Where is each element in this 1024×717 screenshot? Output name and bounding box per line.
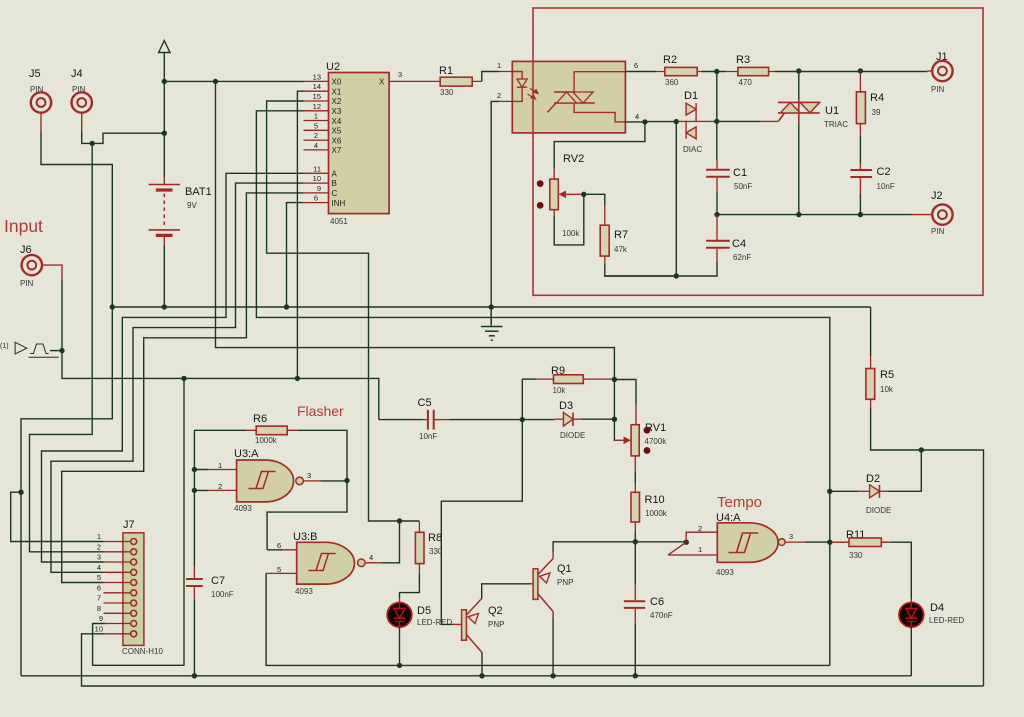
- wire J7 pin9 hook: [93, 378, 184, 665]
- wire opto pin4 to gate line: [625, 121, 678, 123]
- gate U4:A: [668, 512, 805, 577]
- svg-text:LED-RED: LED-RED: [929, 616, 964, 625]
- svg-text:15: 15: [313, 92, 321, 101]
- LED D4: [899, 599, 964, 627]
- transistor Q1 PNP: [531, 553, 573, 617]
- wire J6 down: [61, 280, 63, 351]
- wire rail to R5: [870, 307, 872, 356]
- svg-text:J5: J5: [29, 68, 41, 80]
- big red border box: [533, 8, 983, 295]
- node pin4 branch: [642, 119, 647, 124]
- resistor R10: [631, 483, 668, 532]
- svg-text:2: 2: [314, 131, 318, 140]
- wire J5 net left side down: [21, 307, 112, 676]
- svg-text:10nF: 10nF: [419, 432, 437, 441]
- svg-text:X1: X1: [332, 87, 342, 96]
- wire X0 net to R9/RV1: [216, 81, 615, 379]
- svg-text:D3: D3: [559, 400, 573, 412]
- wire gate line to U1 gate: [717, 120, 760, 122]
- svg-text:1: 1: [218, 461, 222, 470]
- svg-text:U3:A: U3:A: [234, 448, 259, 460]
- svg-text:R7: R7: [614, 229, 628, 241]
- resistor R6: [194, 413, 297, 445]
- wire U3A out: [320, 480, 347, 482]
- svg-text:9V: 9V: [187, 201, 197, 210]
- wire B net: [51, 183, 304, 572]
- wire battery to rail: [163, 245, 165, 307]
- node U1 top: [796, 68, 801, 73]
- wire J5 to rail: [41, 131, 112, 307]
- resistor R3: [726, 54, 775, 87]
- capacitor C1: [706, 160, 752, 192]
- svg-text:C5: C5: [418, 397, 432, 409]
- wire D3 to X0 node: [581, 418, 614, 420]
- svg-text:D2: D2: [866, 473, 880, 485]
- svg-text:5: 5: [97, 573, 101, 582]
- wire R4 to C2: [859, 135, 861, 163]
- wire gate branch down to bottom rail: [675, 122, 677, 276]
- svg-text:1000k: 1000k: [645, 509, 668, 518]
- svg-text:330: 330: [440, 88, 454, 97]
- svg-text:2: 2: [218, 482, 222, 491]
- node C1/C4: [714, 212, 719, 217]
- capacitor C5: [379, 397, 450, 441]
- wire C net: [62, 193, 304, 583]
- svg-text:39: 39: [872, 108, 881, 117]
- svg-text:14: 14: [313, 82, 321, 91]
- svg-text:Q1: Q1: [557, 563, 572, 575]
- marker dot RV2 lower: [537, 202, 544, 209]
- resistor R7: [600, 205, 628, 264]
- svg-text:DIAC: DIAC: [683, 145, 702, 154]
- svg-text:LED-RED: LED-RED: [417, 618, 452, 627]
- wire R11 to D4: [890, 542, 911, 599]
- svg-text:X4: X4: [332, 117, 342, 126]
- wire Q2 collector to line B: [481, 653, 483, 676]
- ground symbol: [481, 307, 503, 340]
- node J6-gen junction: [59, 348, 64, 353]
- wire R9 node to RV1 top: [614, 380, 636, 406]
- wire R3 to J1: [775, 71, 927, 73]
- svg-text:PIN: PIN: [931, 227, 945, 236]
- node rail INH: [284, 304, 289, 309]
- capacitor C6: [624, 584, 673, 624]
- marker dot RV2 upper: [537, 180, 544, 187]
- svg-text:470: 470: [739, 78, 753, 87]
- svg-text:8: 8: [97, 604, 101, 613]
- svg-text:2: 2: [497, 91, 501, 100]
- node R8 line: [397, 518, 402, 523]
- node C7 bottom: [192, 673, 197, 678]
- wire X3 net long to tempo: [256, 111, 829, 666]
- svg-text:6: 6: [277, 541, 281, 550]
- node U3A out: [344, 478, 349, 483]
- triac U1: [778, 71, 848, 215]
- wire RV2 bottom loop to wiper: [554, 194, 584, 245]
- svg-text:U2: U2: [326, 61, 340, 73]
- wire opto pin6 to R2: [625, 71, 655, 73]
- svg-text:10nF: 10nF: [877, 182, 895, 191]
- svg-text:4051: 4051: [330, 217, 348, 226]
- wire R5 bottom elbow: [871, 408, 984, 686]
- capacitor C2: [850, 163, 894, 194]
- node R9 right X0: [612, 377, 617, 382]
- svg-text:C2: C2: [877, 166, 891, 178]
- node pin9 input net: [181, 376, 186, 381]
- node Q1 collector: [550, 673, 555, 678]
- node D1 right: [714, 119, 719, 124]
- wire X0 node down to RV1 wiper: [613, 419, 616, 440]
- node rail battery: [162, 304, 167, 309]
- wire X3 vertical already drawn; resistor R9: [522, 365, 614, 395]
- svg-text:PIN: PIN: [20, 279, 34, 288]
- node D2 anode: [827, 489, 832, 494]
- wire pin4 branch to RV2 top: [554, 122, 645, 169]
- svg-text:B: B: [332, 179, 337, 188]
- wire J7 pin10 to line C: [82, 634, 984, 686]
- node R10 bottom: [633, 539, 638, 544]
- svg-text:Tempo: Tempo: [717, 494, 762, 511]
- node D3 right: [612, 417, 617, 422]
- svg-text:U3:B: U3:B: [293, 531, 317, 543]
- svg-text:1000k: 1000k: [255, 436, 278, 445]
- svg-text:X3: X3: [332, 107, 342, 116]
- wire R9 left to C5 line: [521, 379, 523, 420]
- potentiometer RV1: [615, 405, 667, 471]
- wire R2 to R3: [701, 71, 726, 73]
- wire node to C6: [634, 542, 636, 584]
- node C6 bottom: [633, 673, 638, 678]
- node rail J5: [110, 304, 115, 309]
- svg-text:Input: Input: [4, 216, 43, 236]
- svg-text:X: X: [379, 78, 385, 87]
- node Q2 base branch: [520, 417, 525, 422]
- svg-text:D5: D5: [417, 605, 431, 617]
- diode D2: [830, 473, 892, 515]
- node tempo out: [827, 540, 832, 545]
- node gate line branch: [674, 119, 679, 124]
- gate U3:A: [194, 448, 320, 513]
- diode D3: [555, 400, 586, 440]
- wire X0 down to D3: [613, 380, 615, 420]
- svg-text:62nF: 62nF: [733, 253, 751, 262]
- svg-text:470nF: 470nF: [650, 611, 673, 620]
- wire J7 pin1 hook: [11, 492, 104, 541]
- diac D1: [678, 90, 717, 154]
- svg-text:DIODE: DIODE: [560, 431, 585, 440]
- node R4 top: [858, 68, 863, 73]
- svg-text:C: C: [332, 189, 338, 198]
- wire Q2 base from C5 line: [441, 420, 522, 625]
- connector J5: [29, 68, 51, 131]
- svg-text:R2: R2: [663, 54, 677, 66]
- svg-text:4: 4: [314, 141, 318, 150]
- svg-text:1: 1: [497, 61, 501, 70]
- wire R6 left net vertical: [193, 430, 195, 566]
- node rail ground: [489, 304, 494, 309]
- wire R8 bottom to D5: [400, 573, 420, 598]
- svg-text:4700k: 4700k: [645, 437, 668, 446]
- svg-text:3: 3: [398, 70, 402, 79]
- wire Q2 emitter to Q1 base: [482, 584, 531, 599]
- node pin1 hook: [18, 490, 23, 495]
- node bottom rail gate branch: [674, 273, 679, 278]
- svg-text:4: 4: [97, 563, 101, 572]
- node power-J4: [162, 131, 167, 136]
- svg-text:100nF: 100nF: [211, 590, 234, 599]
- wire power vertical to battery: [163, 81, 165, 177]
- svg-text:Flasher: Flasher: [297, 403, 344, 419]
- svg-text:X6: X6: [332, 136, 342, 145]
- resistor R2: [656, 54, 702, 87]
- wire J4 to power node: [82, 131, 165, 143]
- wire C4 to bottom rail: [604, 262, 717, 276]
- svg-text:10: 10: [313, 174, 321, 183]
- resistor R4: [856, 71, 884, 135]
- svg-text:3: 3: [307, 471, 311, 480]
- svg-text:12: 12: [313, 102, 321, 111]
- svg-text:4: 4: [635, 112, 639, 121]
- node C1 top: [714, 69, 719, 74]
- svg-text:1: 1: [698, 545, 702, 554]
- wire R7 to bottom rail: [605, 264, 677, 276]
- wire X0 row: [164, 80, 303, 82]
- wire D2 to R5 line: [888, 450, 921, 491]
- node J4 elbow: [90, 141, 95, 146]
- svg-text:RV2: RV2: [563, 153, 584, 165]
- wire C2 to J2 rail: [859, 194, 861, 215]
- wire C5 to D3: [450, 419, 555, 421]
- svg-text:10k: 10k: [553, 386, 567, 395]
- svg-text:(1): (1): [0, 343, 9, 350]
- capacitor C4: [706, 215, 751, 262]
- svg-text:U1: U1: [825, 105, 839, 117]
- svg-text:3: 3: [789, 532, 793, 541]
- svg-text:R10: R10: [645, 494, 665, 506]
- svg-text:TRIAC: TRIAC: [824, 120, 848, 129]
- node R5 line D2: [919, 447, 924, 452]
- svg-text:J2: J2: [931, 190, 943, 202]
- svg-text:C4: C4: [732, 238, 746, 250]
- resistor R1: [410, 65, 482, 97]
- svg-text:5: 5: [314, 121, 318, 130]
- wire X2 net to R8: [267, 101, 420, 521]
- wire C1 to J2 rail: [716, 192, 718, 215]
- wire J4 net to J7 pin2: [30, 143, 104, 551]
- svg-text:3: 3: [97, 553, 101, 562]
- wire U3A out to U3B in: [267, 481, 347, 550]
- svg-text:13: 13: [313, 72, 321, 81]
- svg-text:DIODE: DIODE: [866, 506, 891, 515]
- marker dot RV1 upper: [644, 427, 651, 434]
- svg-text:4093: 4093: [295, 587, 313, 596]
- wire X1 net: [297, 91, 303, 378]
- wire U3B pin5 to line A: [266, 573, 830, 665]
- LED D5: [387, 598, 452, 627]
- svg-text:D4: D4: [930, 602, 944, 614]
- svg-text:R1: R1: [439, 65, 453, 77]
- wire wiper to R7: [584, 194, 605, 205]
- svg-text:J4: J4: [71, 68, 83, 80]
- svg-text:1: 1: [97, 532, 101, 541]
- wire U4 out to R11: [805, 541, 832, 543]
- svg-text:11: 11: [313, 164, 321, 173]
- node U1 bottom: [796, 212, 801, 217]
- wire tempo node to U4 inputs: [635, 541, 686, 543]
- svg-text:2: 2: [698, 524, 702, 533]
- connector J1: [927, 51, 952, 94]
- svg-text:R8: R8: [428, 532, 442, 544]
- svg-text:9: 9: [317, 184, 321, 193]
- wire R6 right to U3A out: [298, 430, 347, 480]
- svg-text:INH: INH: [332, 199, 346, 208]
- svg-text:PNP: PNP: [488, 620, 504, 629]
- svg-text:47k: 47k: [614, 245, 628, 254]
- svg-text:X0: X0: [332, 78, 342, 87]
- wire opto pin2 to ground: [491, 101, 499, 307]
- node U3A pin2: [192, 488, 197, 493]
- svg-text:10k: 10k: [880, 385, 894, 394]
- node D5 line A: [397, 663, 402, 668]
- wire RV1 to R10: [634, 472, 636, 483]
- potentiometer RV2: [550, 153, 584, 238]
- svg-text:R3: R3: [736, 54, 750, 66]
- wire C7 to line B: [193, 600, 195, 676]
- svg-text:PNP: PNP: [557, 578, 573, 587]
- node X0-power: [162, 79, 167, 84]
- svg-text:R6: R6: [253, 413, 267, 425]
- wire D4 to line B: [910, 627, 912, 676]
- svg-text:R4: R4: [870, 92, 884, 104]
- node U3A pin1: [192, 467, 197, 472]
- connector J7: [95, 519, 164, 656]
- svg-text:C1: C1: [733, 167, 747, 179]
- node C2 bottom: [858, 212, 863, 217]
- svg-text:X2: X2: [332, 97, 342, 106]
- node RV2 wiper: [581, 192, 586, 197]
- resistor R11: [832, 529, 890, 560]
- connector J4: [71, 68, 92, 131]
- wire C1 vertical: [716, 72, 718, 161]
- wire Q1 collector to line B: [552, 617, 554, 676]
- svg-text:R5: R5: [880, 369, 894, 381]
- svg-text:2: 2: [97, 542, 101, 551]
- node Q2 collector: [479, 673, 484, 678]
- svg-text:4093: 4093: [716, 568, 734, 577]
- svg-text:BAT1: BAT1: [185, 186, 212, 198]
- gate U3:B: [266, 531, 382, 596]
- svg-text:D1: D1: [684, 90, 698, 102]
- svg-text:CONN-H10: CONN-H10: [122, 647, 163, 656]
- transistor Q2 PNP: [452, 599, 504, 653]
- ground rail y307: [112, 306, 870, 308]
- optocoupler U3? MOC box: [497, 61, 639, 133]
- wire A net: [42, 173, 304, 562]
- wire input net horizontal y378: [62, 351, 379, 420]
- marker dot RV1 lower: [644, 447, 651, 454]
- connector J2: [912, 190, 953, 236]
- svg-text:J7: J7: [123, 519, 135, 531]
- wire R1 to opto pin1: [482, 72, 499, 82]
- resistor R8: [415, 521, 442, 573]
- svg-text:4093: 4093: [234, 504, 252, 513]
- svg-text:7: 7: [97, 594, 101, 603]
- svg-text:X5: X5: [332, 127, 342, 136]
- resistor R5: [866, 356, 894, 408]
- svg-text:X7: X7: [332, 146, 342, 155]
- wire R10 to tempo node: [634, 532, 636, 542]
- wire U3B out up to R8 node: [382, 521, 400, 563]
- wire C6 to rail B: [634, 624, 636, 676]
- wire node to Q1 emitter: [553, 542, 635, 553]
- power arrow symbol: [159, 41, 170, 82]
- svg-text:330: 330: [849, 551, 863, 560]
- wire D5 to line A: [399, 627, 401, 665]
- connector J6: [20, 244, 62, 288]
- svg-text:100k: 100k: [562, 229, 580, 238]
- svg-text:10: 10: [95, 624, 103, 633]
- line B emitter rail: [21, 675, 911, 677]
- svg-text:C6: C6: [650, 596, 664, 608]
- svg-text:360: 360: [665, 78, 679, 87]
- battery BAT1: [149, 177, 212, 244]
- svg-text:6: 6: [634, 61, 638, 70]
- svg-text:4: 4: [369, 553, 373, 562]
- svg-text:A: A: [332, 169, 338, 178]
- node X1 input net: [295, 376, 300, 381]
- J2 rail: [717, 214, 912, 216]
- svg-text:C7: C7: [211, 575, 225, 587]
- node U4 input: [684, 540, 689, 545]
- svg-text:PIN: PIN: [931, 85, 945, 94]
- pulse generator (1): [0, 342, 62, 357]
- svg-text:Q2: Q2: [488, 605, 503, 617]
- svg-text:6: 6: [97, 583, 101, 592]
- svg-text:50nF: 50nF: [734, 182, 752, 191]
- multiplexer U2 4051: [304, 61, 410, 226]
- svg-text:9: 9: [99, 614, 103, 623]
- node X0 branch: [213, 79, 218, 84]
- wire INH to ground rail: [287, 203, 304, 307]
- svg-text:6: 6: [314, 194, 318, 203]
- svg-text:1: 1: [314, 112, 318, 121]
- svg-text:5: 5: [277, 565, 281, 574]
- capacitor C7: [186, 566, 234, 600]
